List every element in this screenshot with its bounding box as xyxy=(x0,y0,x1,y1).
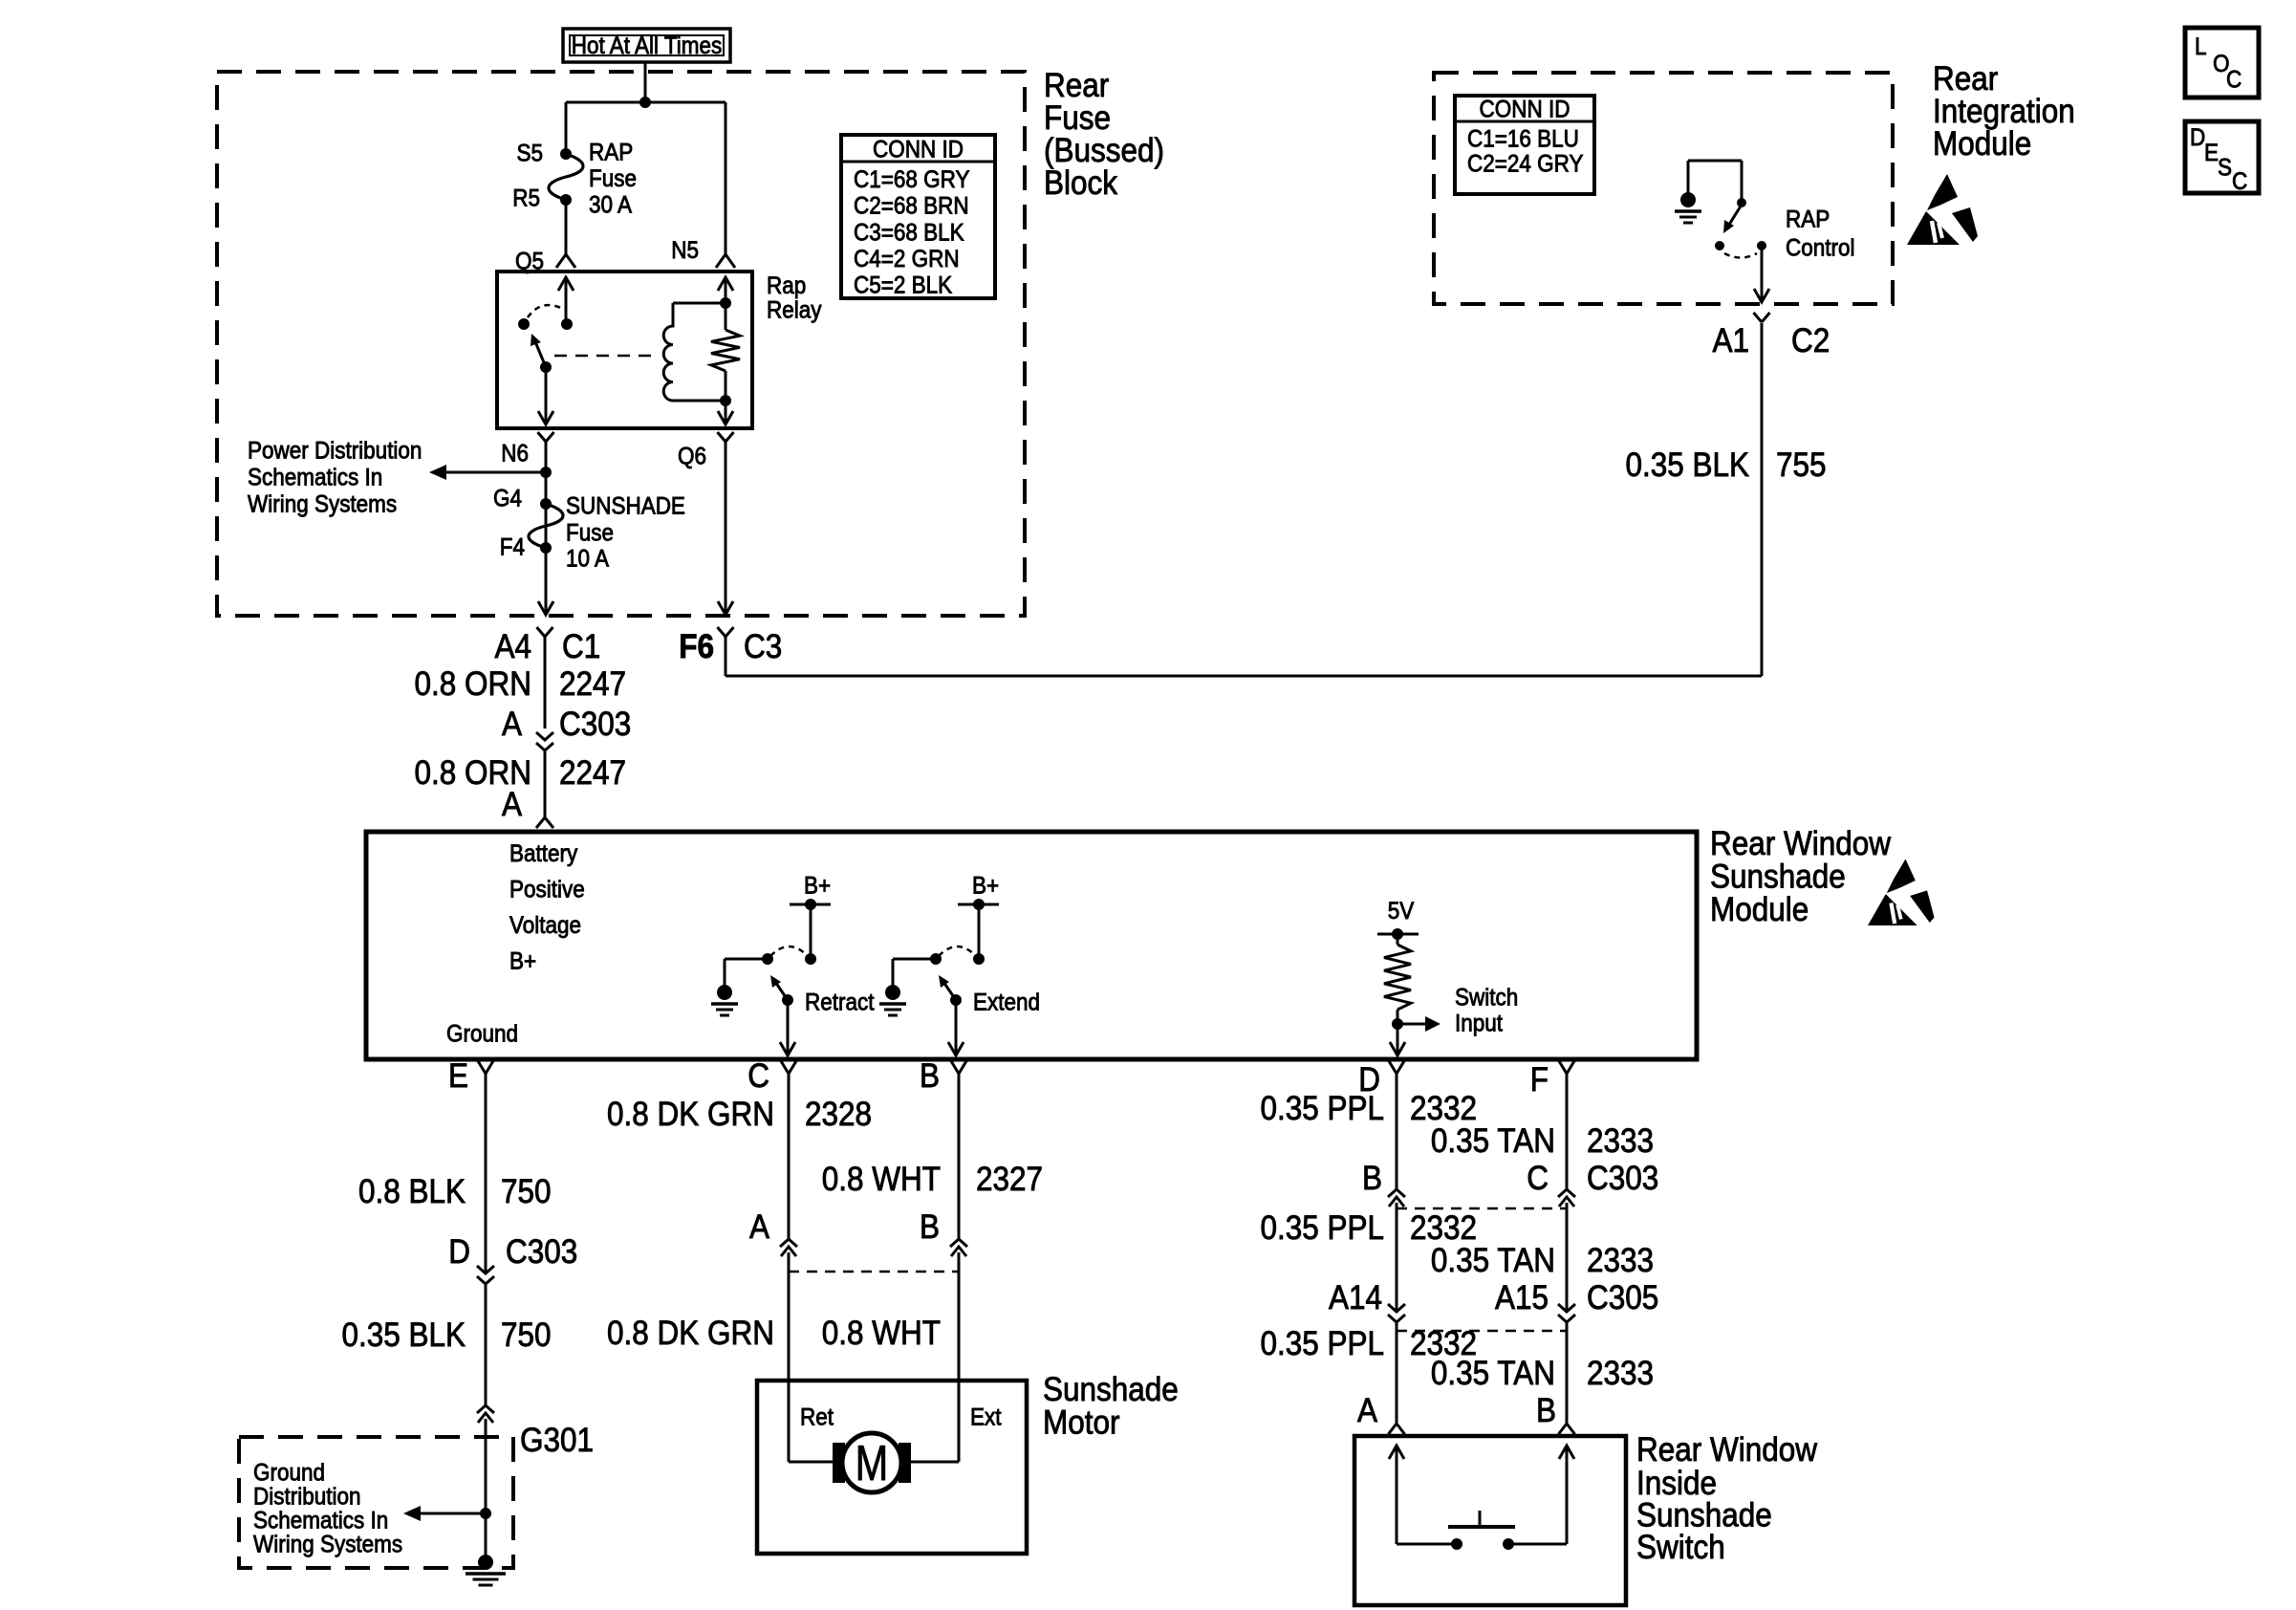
svg-text:0.35 TAN: 0.35 TAN xyxy=(1431,1356,1555,1393)
svg-text:C: C xyxy=(1527,1161,1549,1198)
svg-text:RAP: RAP xyxy=(589,140,633,166)
svg-text:F4: F4 xyxy=(500,534,525,561)
svg-text:2247: 2247 xyxy=(559,755,626,793)
svg-text:C303: C303 xyxy=(559,707,631,744)
svg-text:0.35 PPL: 0.35 PPL xyxy=(1260,1326,1384,1363)
svg-text:2333: 2333 xyxy=(1587,1356,1654,1393)
svg-text:2333: 2333 xyxy=(1587,1123,1654,1161)
svg-text:Block: Block xyxy=(1044,165,1117,203)
svg-text:E: E xyxy=(2204,140,2219,166)
svg-text:A: A xyxy=(1357,1393,1378,1430)
svg-text:0.35 TAN: 0.35 TAN xyxy=(1431,1243,1555,1280)
svg-text:0.8 DK GRN: 0.8 DK GRN xyxy=(607,1316,774,1353)
svg-text:B: B xyxy=(920,1209,940,1247)
svg-text:750: 750 xyxy=(501,1174,552,1211)
svg-text:E: E xyxy=(448,1058,468,1096)
svg-text:A14: A14 xyxy=(1329,1280,1382,1317)
svg-text:Module: Module xyxy=(1933,126,2031,163)
svg-text:G301: G301 xyxy=(520,1423,594,1460)
svg-text:B: B xyxy=(1362,1161,1382,1198)
svg-text:0.8 DK GRN: 0.8 DK GRN xyxy=(607,1097,774,1134)
svg-text:N6: N6 xyxy=(501,441,529,468)
svg-text:F6: F6 xyxy=(679,629,714,666)
svg-text:A4: A4 xyxy=(494,629,531,666)
svg-text:Ret: Ret xyxy=(800,1404,834,1431)
svg-text:C5=2 BLK: C5=2 BLK xyxy=(854,272,952,298)
svg-text:B: B xyxy=(1536,1393,1556,1430)
svg-text:G4: G4 xyxy=(493,486,522,512)
svg-text:Hot At All Times: Hot At All Times xyxy=(572,33,723,59)
svg-text:0.35 PPL: 0.35 PPL xyxy=(1260,1091,1384,1128)
svg-text:C1=68 GRY: C1=68 GRY xyxy=(854,166,970,193)
svg-text:Sunshade: Sunshade xyxy=(1043,1372,1179,1409)
svg-text:2247: 2247 xyxy=(559,666,626,704)
svg-text:N5: N5 xyxy=(671,237,699,264)
svg-text:C305: C305 xyxy=(1587,1280,1658,1317)
svg-text:Wiring Systems: Wiring Systems xyxy=(253,1532,402,1558)
svg-text:2328: 2328 xyxy=(805,1097,872,1134)
svg-text:Wiring Systems: Wiring Systems xyxy=(248,491,397,518)
svg-text:Fuse: Fuse xyxy=(589,165,637,192)
svg-text:C: C xyxy=(747,1058,769,1096)
svg-text:Motor: Motor xyxy=(1043,1404,1119,1442)
svg-text:C: C xyxy=(2232,168,2247,195)
svg-text:10 A: 10 A xyxy=(566,546,609,573)
svg-text:B+: B+ xyxy=(804,873,831,900)
svg-text:CONN ID: CONN ID xyxy=(1480,97,1570,123)
svg-text:Module: Module xyxy=(1710,892,1809,929)
svg-text:Battery: Battery xyxy=(509,840,577,867)
svg-text:Control: Control xyxy=(1786,235,1854,262)
svg-text:SUNSHADE: SUNSHADE xyxy=(566,493,685,520)
svg-text:Ground: Ground xyxy=(446,1021,518,1048)
svg-text:C1: C1 xyxy=(562,629,600,666)
svg-text:C2: C2 xyxy=(1791,323,1830,360)
svg-text:F: F xyxy=(1530,1062,1549,1099)
svg-text:0.35 BLK: 0.35 BLK xyxy=(341,1317,466,1355)
svg-text:S5: S5 xyxy=(516,141,543,167)
svg-text:0.8 ORN: 0.8 ORN xyxy=(415,666,531,704)
svg-text:A1: A1 xyxy=(1712,323,1749,360)
svg-text:S: S xyxy=(2218,155,2232,182)
svg-text:C4=2 GRN: C4=2 GRN xyxy=(854,246,960,272)
svg-text:Schematics In: Schematics In xyxy=(248,465,382,491)
svg-text:0.8 BLK: 0.8 BLK xyxy=(358,1174,466,1211)
svg-text:Rap: Rap xyxy=(767,272,806,299)
svg-text:750: 750 xyxy=(501,1317,552,1355)
svg-text:2333: 2333 xyxy=(1587,1243,1654,1280)
svg-text:B+: B+ xyxy=(509,948,536,975)
svg-text:L: L xyxy=(2195,33,2207,60)
svg-text:Sunshade: Sunshade xyxy=(1710,859,1846,896)
svg-text:C1=16 BLU: C1=16 BLU xyxy=(1467,126,1579,153)
svg-text:C3: C3 xyxy=(744,629,782,666)
svg-text:0.35 BLK: 0.35 BLK xyxy=(1625,447,1749,485)
svg-text:Input: Input xyxy=(1455,1011,1503,1037)
svg-text:A15: A15 xyxy=(1495,1280,1549,1317)
svg-text:755: 755 xyxy=(1776,447,1827,485)
svg-text:A: A xyxy=(749,1209,770,1247)
svg-text:Retract: Retract xyxy=(805,990,875,1016)
svg-text:A: A xyxy=(502,707,523,744)
svg-text:R5: R5 xyxy=(512,185,540,212)
svg-text:C2=24 GRY: C2=24 GRY xyxy=(1467,151,1584,178)
svg-text:RAP: RAP xyxy=(1786,207,1830,233)
svg-text:Power Distribution: Power Distribution xyxy=(248,438,422,465)
svg-text:Ext: Ext xyxy=(970,1404,1002,1431)
svg-text:Positive: Positive xyxy=(509,877,585,903)
svg-text:C303: C303 xyxy=(1587,1161,1658,1198)
svg-text:0.35 PPL: 0.35 PPL xyxy=(1260,1210,1384,1248)
svg-text:5V: 5V xyxy=(1388,898,1415,925)
svg-text:A: A xyxy=(502,787,523,824)
svg-text:Switch: Switch xyxy=(1455,985,1518,1012)
svg-text:C: C xyxy=(2226,67,2242,94)
svg-text:Voltage: Voltage xyxy=(509,912,581,939)
svg-text:C303: C303 xyxy=(506,1234,577,1272)
svg-text:0.35 TAN: 0.35 TAN xyxy=(1431,1123,1555,1161)
svg-text:2327: 2327 xyxy=(976,1162,1043,1199)
svg-text:Extend: Extend xyxy=(973,990,1040,1016)
svg-text:Fuse: Fuse xyxy=(566,520,614,547)
svg-text:30 A: 30 A xyxy=(589,192,632,219)
svg-text:0.8 WHT: 0.8 WHT xyxy=(822,1162,941,1199)
svg-text:CONN ID: CONN ID xyxy=(873,137,964,163)
svg-text:M: M xyxy=(856,1435,889,1491)
svg-text:D: D xyxy=(448,1234,470,1272)
svg-text:B: B xyxy=(920,1058,940,1096)
svg-text:0.8 WHT: 0.8 WHT xyxy=(822,1316,941,1353)
svg-text:Rear Window: Rear Window xyxy=(1710,826,1892,863)
svg-text:B+: B+ xyxy=(972,873,999,900)
svg-text:Q6: Q6 xyxy=(678,444,706,470)
svg-text:Rear Window: Rear Window xyxy=(1636,1432,1818,1469)
svg-text:C3=68 BLK: C3=68 BLK xyxy=(854,219,964,246)
svg-text:C2=68 BRN: C2=68 BRN xyxy=(854,193,969,220)
svg-text:Switch: Switch xyxy=(1636,1530,1725,1567)
svg-text:D: D xyxy=(2190,124,2205,151)
svg-text:Relay: Relay xyxy=(767,297,822,324)
